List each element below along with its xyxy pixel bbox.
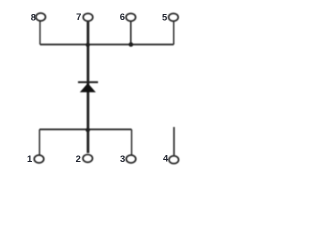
svg-text:2: 2 (76, 153, 81, 164)
svg-text:7: 7 (76, 11, 81, 22)
svg-text:4: 4 (163, 152, 169, 163)
svg-text:5: 5 (162, 11, 167, 22)
svg-text:1: 1 (27, 153, 32, 164)
svg-text:6: 6 (120, 11, 125, 22)
svg-text:3: 3 (120, 153, 125, 164)
svg-text:8: 8 (31, 11, 36, 22)
